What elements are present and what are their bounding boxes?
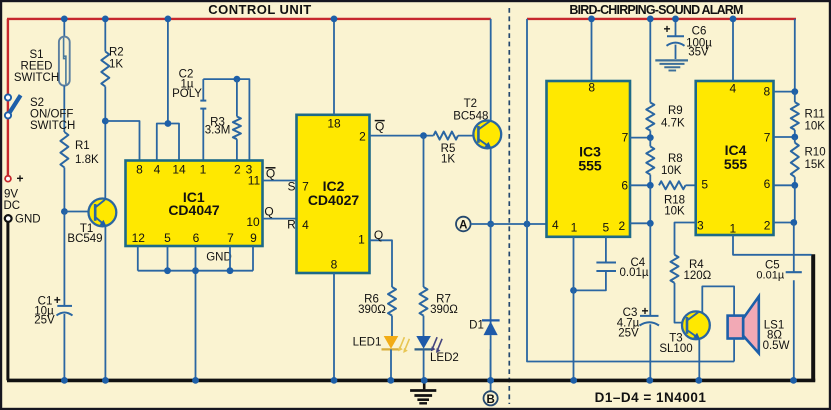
svg-text:R9: R9 [668, 105, 683, 117]
node pin2/C3 junction [647, 220, 654, 227]
wire R7 to LED2 [423, 316, 425, 336]
wire IC4 pin2 to node [774, 222, 795, 224]
wire +9V red rail (control unit) [7, 18, 491, 20]
node pin2 junction [790, 219, 797, 226]
IC U2 CD4027 [297, 115, 370, 273]
svg-text:7: 7 [227, 231, 234, 245]
section separator dashed line [508, 8, 510, 404]
node rail junction x591 [588, 16, 595, 23]
wire rail end down to pin8 node [794, 19, 796, 92]
svg-text:CD4027: CD4027 [308, 192, 360, 208]
wire IC3 pin6 to node [630, 184, 650, 186]
svg-text:35V: 35V [688, 47, 709, 59]
svg-text:BIRD-CHIRPING-SOUND ALARM: BIRD-CHIRPING-SOUND ALARM [569, 3, 743, 17]
node A terminal [456, 217, 471, 232]
wire T2 collector to rail [490, 19, 492, 122]
svg-text:SWITCH: SWITCH [14, 72, 59, 84]
wire GND terminal to bus [6, 222, 9, 381]
wire rail to IC3 pin8 [591, 19, 593, 81]
ground symbol under LED2 [423, 382, 426, 389]
node C2/R3 junction [234, 76, 241, 83]
svg-text:5: 5 [603, 221, 610, 235]
node GND terminal [5, 215, 12, 222]
svg-text:6: 6 [621, 179, 628, 193]
svg-text:4.7K: 4.7K [661, 118, 685, 130]
svg-text:4: 4 [730, 82, 737, 96]
capacitor C2 [202, 109, 204, 161]
transistor T2 [473, 120, 501, 148]
svg-text:+: + [641, 304, 648, 318]
wire R4 to T3 base [675, 283, 688, 323]
wire R6 to LED1 [391, 316, 393, 336]
wire IC3 pin1 to bus [573, 237, 575, 381]
wire node A feed line [527, 224, 734, 362]
resistor R4 [671, 255, 679, 283]
node rail junction x64 [61, 16, 68, 23]
capacitor C1 [57, 305, 72, 307]
svg-text:GND: GND [15, 214, 41, 226]
svg-text:0.01µ: 0.01µ [620, 267, 649, 279]
svg-text:A: A [459, 220, 467, 232]
svg-text:+: + [54, 293, 61, 307]
wire IC1 pin6 down to bus [195, 246, 197, 380]
node Qbar/R7 junction [420, 132, 427, 139]
svg-text:LED1: LED1 [353, 337, 382, 349]
svg-text:BC548: BC548 [453, 111, 488, 123]
svg-text:B: B [486, 394, 494, 406]
svg-text:1: 1 [200, 163, 207, 177]
resistor R11 [791, 102, 799, 130]
svg-text:390Ω: 390Ω [358, 304, 386, 316]
svg-text:7: 7 [764, 131, 771, 145]
node R2/IC1 pin8 junction [102, 118, 109, 125]
wire T2 emitter to node A line [490, 149, 492, 225]
wire rail to IC1 pins 4 and 14 [167, 19, 169, 124]
resistor R8 [649, 138, 651, 147]
svg-text:5: 5 [701, 178, 708, 192]
svg-text:R11: R11 [805, 109, 825, 121]
svg-text:R8: R8 [668, 153, 683, 165]
svg-text:T2: T2 [464, 98, 477, 110]
ground symbol under C6 [655, 59, 688, 61]
wire T1 emitter to bus [104, 226, 106, 381]
wire speaker to +V line [733, 339, 735, 362]
svg-text:1: 1 [730, 222, 737, 236]
svg-text:R10: R10 [805, 147, 826, 159]
svg-text:5: 5 [164, 231, 171, 245]
capacitor C3 [649, 223, 651, 316]
svg-text:Q: Q [266, 167, 275, 181]
svg-text:D1–D4 = 1N4001: D1–D4 = 1N4001 [595, 390, 707, 405]
svg-text:2: 2 [618, 219, 625, 233]
wire IC4 pin7 to node [774, 136, 795, 138]
wire IC2 pin8 to bus [333, 273, 335, 380]
IC U4 555 (IC4) [696, 81, 774, 235]
wire IC1 pin9 down [252, 246, 254, 271]
wire T3 emitter to bus [698, 339, 700, 380]
node tie pin7 [227, 267, 234, 274]
svg-text:1: 1 [571, 221, 578, 235]
svg-text:S1: S1 [29, 49, 43, 61]
capacitor C6 [675, 19, 677, 36]
svg-text:4: 4 [552, 218, 559, 232]
wire LED2 to bus [423, 349, 425, 380]
svg-text:15K: 15K [805, 159, 826, 171]
wire IC2 pin1 to R6 [370, 240, 393, 287]
svg-text:ON/OFF: ON/OFF [30, 109, 73, 121]
svg-text:R: R [287, 218, 296, 232]
node rail junction x650 [647, 16, 654, 23]
resistor R6 [388, 287, 396, 316]
node tie pin6 [192, 267, 199, 274]
svg-text:3: 3 [697, 219, 704, 233]
svg-text:8: 8 [331, 258, 338, 272]
node rail junction x675 [672, 16, 679, 23]
junction dots on ground bus right [570, 377, 577, 384]
IC U3 555 (IC3) [547, 81, 631, 237]
wire IC4 pin3 to R4 [675, 223, 696, 255]
svg-text:11: 11 [248, 174, 261, 188]
svg-text:S2: S2 [30, 97, 44, 109]
node A rail junction [524, 221, 531, 228]
node rail junction x105 [102, 16, 109, 23]
svg-text:8: 8 [136, 163, 143, 177]
node B terminal [490, 382, 492, 391]
svg-text:DC: DC [4, 200, 21, 212]
wire IC4 pin1 black ground drop [811, 254, 815, 381]
wire IC4 pin1 to black drop [733, 235, 812, 255]
LED LED1 [384, 336, 399, 349]
svg-text:9V: 9V [4, 189, 18, 201]
svg-text:1K: 1K [109, 59, 123, 71]
svg-text:REED: REED [21, 61, 53, 73]
wire IC1 pin12 down [137, 246, 139, 271]
svg-text:Q: Q [375, 120, 384, 134]
svg-text:BC549: BC549 [67, 233, 102, 245]
svg-text:390Ω: 390Ω [430, 304, 458, 316]
resistor R18 [659, 181, 686, 189]
wire IC4 pin8 to node [774, 91, 795, 93]
svg-text:D1: D1 [469, 320, 484, 332]
node pin6/R18 junction [647, 182, 654, 189]
svg-text:R2: R2 [109, 47, 124, 59]
wire IC1 pin5 down [167, 246, 169, 271]
wire IC3 pin7 to R9/R8 node [630, 137, 650, 139]
node pin8 junction [791, 88, 798, 95]
svg-text:8: 8 [588, 81, 595, 95]
svg-text:POLY: POLY [172, 88, 202, 100]
transistor T3 [682, 311, 710, 339]
wire pin6 node down to pin2 node [794, 185, 796, 222]
svg-text:3.3M: 3.3M [205, 125, 231, 137]
svg-text:8: 8 [763, 85, 770, 99]
node pin6 junction [791, 182, 798, 189]
wire C2 top to R3 and IC1 pin3 [203, 79, 249, 160]
wire T3 collector to speaker [702, 286, 734, 315]
node T2 emitter junction [487, 221, 494, 228]
wire IC1 pin11 to IC2 pin7 [263, 180, 297, 182]
svg-text:6: 6 [764, 177, 771, 191]
svg-text:2: 2 [234, 163, 241, 177]
svg-text:C6: C6 [692, 26, 707, 38]
svg-text:SL100: SL100 [659, 343, 692, 355]
svg-text:4: 4 [302, 218, 309, 232]
resistor R2 [104, 20, 106, 52]
switch S2 on/off switch [8, 95, 20, 115]
wire rail to IC4 pin4 [732, 19, 734, 81]
wire IC1 pin10 to IC2 pin4 [263, 218, 297, 220]
svg-text:14: 14 [172, 163, 186, 177]
node rail junction x733 [730, 16, 737, 23]
node C4 ground tie [570, 287, 577, 294]
svg-text:1: 1 [358, 233, 365, 247]
wire IC4 pin6 to node [774, 184, 795, 186]
svg-text:Q: Q [264, 205, 273, 219]
node pins 4-14 tie [165, 120, 172, 127]
resistor R10 [791, 143, 799, 177]
svg-text:555: 555 [578, 158, 602, 174]
svg-text:+: + [663, 22, 670, 36]
wire C4 to ground tie [574, 271, 606, 290]
svg-text:Q: Q [374, 228, 383, 242]
wire IC2 pin2 to R5 [370, 135, 434, 137]
node tie pin5 [164, 267, 171, 274]
svg-text:120Ω: 120Ω [684, 270, 712, 282]
svg-text:25V: 25V [618, 328, 639, 340]
svg-text:4: 4 [154, 163, 161, 177]
svg-text:S: S [287, 180, 295, 194]
resistor R5 [434, 132, 459, 140]
svg-text:+: + [16, 172, 23, 186]
node +9V terminal [5, 176, 11, 182]
svg-text:9: 9 [250, 231, 257, 245]
svg-text:R1: R1 [75, 140, 90, 152]
wire R2 to T1 collector [104, 87, 106, 200]
svg-text:CD4047: CD4047 [168, 202, 220, 218]
svg-text:25V: 25V [34, 315, 55, 327]
svg-text:2: 2 [359, 130, 366, 144]
IC U1 CD4047 [126, 161, 263, 247]
node rail junction x167 [165, 16, 172, 23]
wire IC3 pin2 to node [630, 222, 650, 224]
svg-text:10: 10 [246, 215, 260, 229]
svg-text:6: 6 [193, 231, 200, 245]
wire Qbar node down to R7 [423, 136, 425, 287]
capacitor C4 [596, 262, 616, 264]
resistor R3 [236, 79, 238, 116]
wire ground bus [7, 379, 815, 383]
wire IC1 pin7 down [229, 246, 231, 271]
LED LED2 [416, 336, 431, 349]
svg-text:10K: 10K [805, 121, 826, 133]
transistor T1 [89, 199, 117, 227]
svg-text:1K: 1K [441, 154, 455, 166]
switch S1 reed switch [63, 20, 65, 37]
svg-text:12: 12 [132, 231, 146, 245]
svg-text:555: 555 [724, 156, 748, 172]
svg-text:CONTROL UNIT: CONTROL UNIT [208, 2, 311, 17]
svg-text:0.5W: 0.5W [763, 340, 790, 352]
svg-text:18: 18 [327, 117, 341, 131]
node R9/R8 junction [647, 134, 654, 141]
capacitor C5 [793, 223, 795, 273]
svg-text:10K: 10K [664, 206, 685, 218]
resistor R7 [420, 287, 428, 316]
wire node to IC1 pin 8 [105, 121, 139, 161]
wire IC3 pin5 down to C4 [605, 237, 607, 263]
svg-text:1.8K: 1.8K [75, 154, 99, 166]
svg-text:7: 7 [302, 180, 309, 194]
wire R1 to T1 base node [63, 168, 65, 212]
svg-text:0.01µ: 0.01µ [756, 270, 784, 282]
wire rail down to node A [526, 19, 528, 224]
node R1/T1 base junction [61, 208, 68, 215]
diode D1 [490, 224, 492, 380]
svg-text:2: 2 [764, 219, 771, 233]
wire IC1 ground tie bar [138, 270, 253, 272]
wire rail to IC2 pin18 [333, 19, 335, 115]
node rail junction x334 [331, 16, 338, 23]
speaker LS1 [728, 316, 744, 339]
wire +9V red vertical feed [7, 19, 9, 176]
svg-text:7: 7 [622, 131, 629, 145]
resistor R9 [649, 19, 651, 103]
svg-text:LED2: LED2 [430, 352, 459, 364]
wire LED1 to bus [390, 349, 392, 380]
wire base node to T1 [64, 211, 95, 213]
wire pin6 node down to pin2 node [649, 185, 651, 223]
resistor R1 [60, 132, 68, 168]
svg-text:10K: 10K [661, 165, 682, 177]
svg-text:SWITCH: SWITCH [30, 120, 75, 132]
svg-text:GND: GND [206, 252, 232, 264]
node pin7 junction [791, 134, 798, 141]
junction dots on ground bus [61, 377, 68, 384]
wire +9V red rail (alarm section) [527, 18, 796, 20]
wire node A to IC3 pin4 [471, 223, 547, 225]
